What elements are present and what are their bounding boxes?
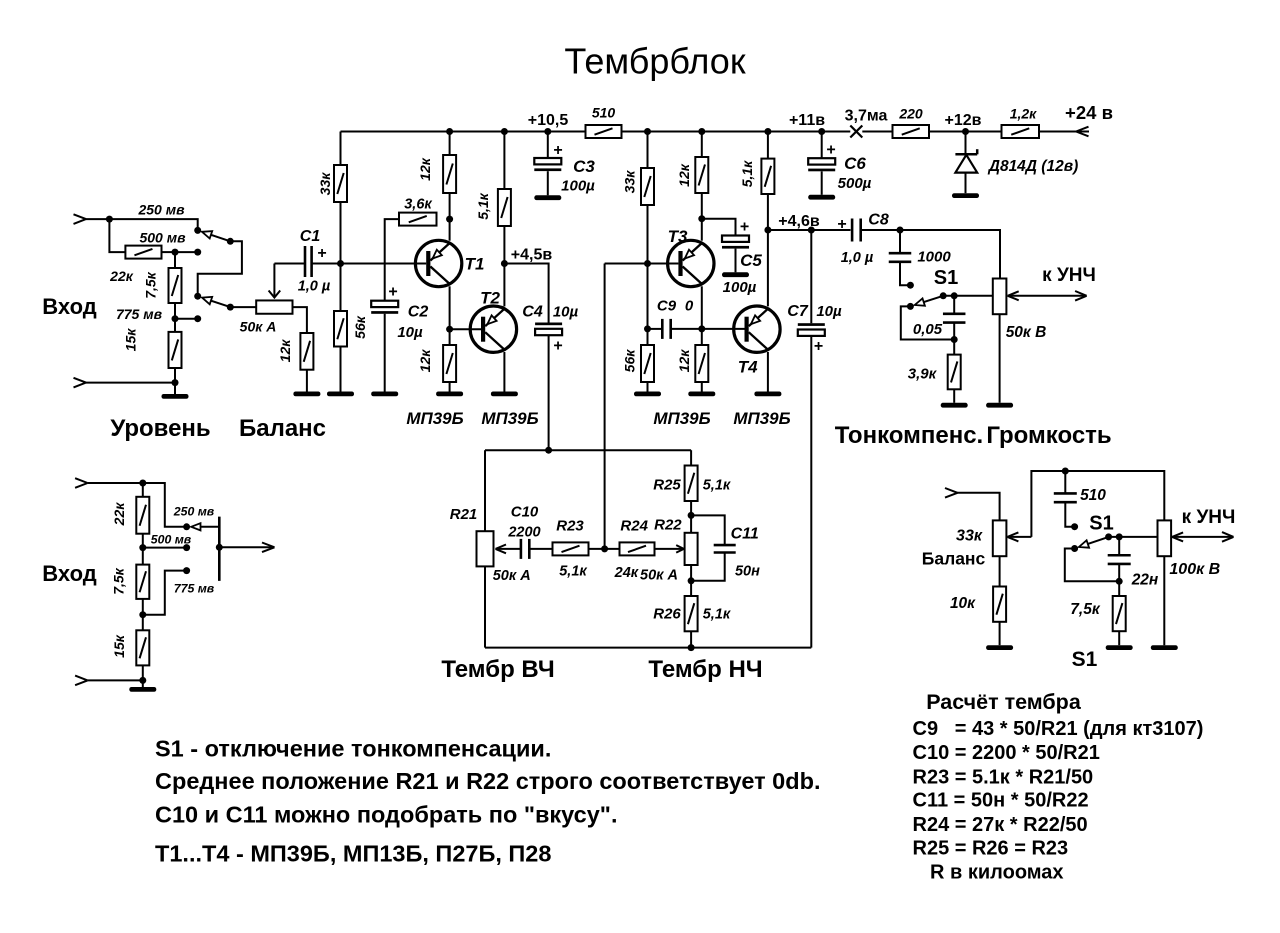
svg-text:+: + bbox=[837, 216, 846, 233]
svg-text:Вход: Вход bbox=[42, 294, 96, 319]
svg-text:R26: R26 bbox=[653, 606, 681, 623]
svg-text:Баланс: Баланс bbox=[922, 549, 986, 569]
svg-text:C5: C5 bbox=[740, 251, 762, 270]
svg-text:+24 в: +24 в bbox=[1065, 102, 1113, 123]
svg-text:2200: 2200 bbox=[507, 525, 540, 541]
ground 100к pot bbox=[1151, 645, 1178, 650]
label + C2 bbox=[388, 284, 397, 301]
svg-text:R в килоомах: R в килоомах bbox=[930, 862, 1064, 884]
label R26 bbox=[653, 606, 681, 623]
resistor 33к right bbox=[622, 168, 655, 205]
svg-text:T2: T2 bbox=[480, 289, 500, 308]
svg-text:+11в: +11в bbox=[789, 112, 825, 129]
svg-text:50н: 50н bbox=[735, 564, 760, 580]
svg-text:1,0 µ: 1,0 µ bbox=[841, 250, 874, 266]
resistor 220 bbox=[893, 125, 930, 138]
junction rail/C6 bbox=[818, 128, 825, 135]
label 7,5к bottom bbox=[1070, 601, 1101, 618]
wire node to 7,5к bbox=[1118, 581, 1120, 596]
contact 775мв lower bbox=[183, 567, 190, 574]
wire selector link bbox=[198, 241, 242, 296]
label 50к A balance bbox=[240, 319, 277, 335]
svg-text:T3: T3 bbox=[668, 227, 688, 246]
svg-text:1000: 1000 bbox=[917, 249, 951, 266]
wire rail to 33k left bbox=[340, 132, 342, 166]
resistor 22к lower bbox=[111, 497, 149, 534]
junction input/22k bbox=[106, 216, 113, 223]
note line 4 bbox=[155, 841, 551, 867]
label + C3 bbox=[553, 142, 562, 159]
svg-text:+: + bbox=[317, 245, 326, 262]
wire T4 collector up bbox=[767, 230, 769, 306]
label R25 bbox=[653, 477, 681, 494]
resistor 12к T1 lower bbox=[417, 345, 456, 382]
capacitor C1 1,0µ bbox=[305, 246, 312, 277]
junction rail/33k right bbox=[644, 128, 651, 135]
label C7 bbox=[787, 303, 809, 320]
resistor 12к balance bbox=[277, 333, 313, 370]
svg-text:33к: 33к bbox=[317, 172, 333, 196]
label C4 bbox=[522, 304, 543, 321]
svg-text:R25 = R26 = R23: R25 = R26 = R23 bbox=[913, 838, 1069, 860]
label 24к R24 bbox=[614, 565, 639, 581]
label + C7 bbox=[814, 338, 823, 355]
wire C3 to ground bbox=[547, 171, 549, 195]
svg-text:50к B: 50к B bbox=[1006, 324, 1047, 341]
wire 3,6к to C2 bbox=[385, 219, 399, 301]
label 500µ bbox=[838, 175, 872, 192]
junction C4 line/tone top bbox=[545, 447, 552, 454]
label +24 в bbox=[1065, 102, 1113, 123]
svg-text:R23: R23 bbox=[556, 518, 584, 535]
svg-text:Баланс: Баланс bbox=[239, 415, 326, 442]
ground volume pot bbox=[986, 403, 1013, 408]
svg-text:15к: 15к bbox=[111, 634, 127, 658]
label R23 bbox=[556, 518, 584, 535]
ground balance 12k bbox=[293, 392, 320, 397]
ground C3 bbox=[534, 195, 561, 200]
potentiometer R22 50к A bbox=[685, 533, 698, 565]
svg-text:10µ: 10µ bbox=[397, 324, 423, 341]
wire C10 to R23 bbox=[529, 548, 552, 550]
ground T2 bbox=[491, 392, 518, 397]
svg-text:+10,5: +10,5 bbox=[528, 112, 569, 129]
label + C1 bbox=[317, 245, 326, 262]
label 50к A R21 bbox=[493, 568, 531, 584]
svg-text:510: 510 bbox=[592, 105, 616, 121]
wire 56k right to ground bbox=[647, 382, 649, 392]
wire C7 tap down bbox=[810, 230, 812, 323]
wire zener to ground bbox=[965, 173, 967, 194]
svg-text:500 мв: 500 мв bbox=[151, 533, 192, 547]
wire balance2 pot to 10к bbox=[999, 556, 1001, 586]
capacitor C3 100µ bbox=[534, 158, 561, 171]
arrow к УНЧ bottom bbox=[1222, 532, 1234, 542]
label C3 bbox=[573, 157, 595, 176]
label R24 bbox=[620, 518, 648, 535]
junction R26/C11 bbox=[688, 577, 695, 584]
junction C9 left bbox=[644, 325, 651, 332]
svg-text:22н: 22н bbox=[1131, 572, 1159, 589]
svg-text:7,5к: 7,5к bbox=[1070, 601, 1101, 618]
junction R25/C11 bbox=[688, 512, 695, 519]
resistor 7,5к upper bbox=[143, 268, 182, 303]
label к УНЧ toncomp bbox=[1042, 265, 1096, 286]
svg-text:12к: 12к bbox=[277, 339, 293, 363]
junction lower input/22k bbox=[139, 480, 146, 487]
svg-text:+: + bbox=[740, 219, 749, 236]
capacitor C6 500µ bbox=[808, 158, 835, 171]
svg-text:50к A: 50к A bbox=[240, 319, 277, 335]
label Баланс bottom bbox=[922, 549, 986, 569]
junction selector bar out bbox=[216, 544, 223, 551]
wire 10к to ground bbox=[999, 622, 1001, 645]
label 1,0µ C1 bbox=[298, 279, 331, 295]
ground 7,5к bottom bbox=[1106, 645, 1133, 650]
label 33к balance2 bbox=[956, 528, 983, 545]
junction C7 tap bbox=[808, 227, 815, 234]
junction 510 cap tap bbox=[1062, 468, 1069, 475]
svg-text:50к A: 50к A bbox=[640, 568, 678, 584]
svg-text:R25: R25 bbox=[653, 477, 681, 494]
label C5 bbox=[740, 251, 762, 270]
wire 775мв tap stub bbox=[175, 318, 198, 320]
wire 775мв lower link bbox=[143, 571, 187, 615]
label +12в bbox=[945, 112, 982, 129]
label 10µ C4 bbox=[553, 304, 579, 321]
wire 5,1k T4 to +4,6в node bbox=[767, 194, 769, 230]
label + C4 bbox=[553, 338, 562, 355]
svg-text:C2: C2 bbox=[408, 304, 429, 321]
junction T3 collector/C5 bbox=[698, 215, 705, 222]
svg-text:56к: 56к bbox=[352, 315, 368, 339]
wire C9node to 56k bbox=[647, 329, 649, 345]
resistor R25 bbox=[685, 466, 698, 502]
label 22к upper bbox=[109, 268, 134, 284]
label 1000 bbox=[917, 249, 951, 266]
potentiometer 100к В bbox=[1158, 520, 1172, 556]
resistor 15к upper bbox=[123, 328, 182, 368]
potentiometer 50к B (Громкость) bbox=[993, 279, 1007, 315]
label C11 bbox=[731, 526, 759, 543]
wire lower divider to ground bbox=[142, 680, 144, 687]
svg-text:0: 0 bbox=[685, 298, 694, 315]
capacitor 22н bbox=[1108, 555, 1131, 564]
label R21 bbox=[450, 506, 478, 523]
ground 56k right bbox=[634, 392, 661, 397]
wire T1 node to T2 base bbox=[450, 328, 481, 330]
ground C6 bbox=[808, 195, 835, 200]
wire 12k lower to ground bbox=[449, 382, 451, 392]
wire tone top bbox=[485, 449, 691, 451]
resistor 7,5к bottom bbox=[1113, 596, 1126, 631]
switch arm S upper 2 bbox=[202, 297, 230, 307]
junction rail/5,1k T2 bbox=[501, 128, 508, 135]
svg-text:R23 = 5.1к * R21/50: R23 = 5.1к * R21/50 bbox=[913, 767, 1094, 789]
wire 3,9к to ground bbox=[953, 389, 955, 403]
label 3,6к bbox=[404, 197, 432, 213]
label Вход upper bbox=[42, 294, 96, 319]
svg-text:МП39Б: МП39Б bbox=[481, 409, 538, 428]
pole switch upper 1 bbox=[227, 238, 234, 245]
svg-text:Д814Д (12в): Д814Д (12в) bbox=[987, 158, 1078, 175]
ground 12k T1 lower bbox=[436, 392, 463, 397]
svg-text:+4,5в: +4,5в bbox=[511, 247, 553, 264]
wire tone bottom bbox=[485, 647, 811, 649]
svg-text:5,1к: 5,1к bbox=[739, 160, 755, 187]
svg-text:S1 - отключение тонкомпенсации: S1 - отключение тонкомпенсации. bbox=[155, 736, 551, 762]
label 100µ C3 bbox=[561, 178, 595, 195]
svg-text:S1: S1 bbox=[934, 267, 958, 289]
contact 250мв lower bbox=[183, 523, 190, 530]
contact 250мв upper bbox=[194, 227, 201, 234]
label + C5 bbox=[740, 219, 749, 236]
wire T1 emitter down bbox=[449, 286, 451, 329]
wire C6 to ground bbox=[821, 171, 823, 194]
formula R24 bbox=[913, 814, 1088, 836]
capacitor C2 10µ bbox=[371, 301, 398, 314]
wire 12k T3 to T3 bbox=[701, 193, 703, 241]
capacitor 510 bottom bbox=[1054, 493, 1077, 502]
switch S1 arm (bottom) bbox=[1079, 537, 1109, 548]
wire S1b contact loop bbox=[1065, 549, 1119, 582]
resistor 15к lower bbox=[111, 630, 149, 665]
selector common bar lower bbox=[218, 517, 221, 581]
wire to 510 cap bbox=[1064, 471, 1066, 494]
junction 22н/7,5к bbox=[1116, 578, 1123, 585]
wiper arrow volume pot bbox=[1008, 291, 1087, 300]
svg-text:C1: C1 bbox=[300, 228, 321, 245]
contact 775мв upper bbox=[194, 315, 201, 322]
svg-text:33к: 33к bbox=[622, 170, 638, 194]
label 10µ C7 bbox=[816, 303, 842, 320]
svg-text:С10 и С11 можно подобрать по ": С10 и С11 можно подобрать по "вкусу". bbox=[155, 802, 617, 828]
svg-text:12к: 12к bbox=[676, 349, 692, 373]
resistor 1,2к bbox=[1002, 125, 1040, 138]
svg-text:10µ: 10µ bbox=[816, 303, 842, 320]
svg-text:C11 = 50н * 50/R22: C11 = 50н * 50/R22 bbox=[913, 790, 1089, 812]
wire T4 emitter to ground bbox=[767, 352, 769, 392]
wire T2 collector up bbox=[503, 264, 505, 307]
label +11в bbox=[789, 112, 825, 129]
svg-text:250 мв: 250 мв bbox=[137, 202, 185, 218]
svg-text:к УНЧ: к УНЧ bbox=[1042, 265, 1096, 286]
capacitor C5 100µ bbox=[722, 236, 749, 249]
label МП39Б T2 bbox=[481, 409, 538, 428]
capacitor C10 2200 bbox=[521, 539, 529, 559]
arrow input balance section bbox=[945, 488, 958, 498]
label 775 мв upper bbox=[116, 306, 163, 322]
svg-text:Тонкомпенс.: Тонкомпенс. bbox=[835, 422, 983, 449]
svg-text:C7: C7 bbox=[787, 303, 809, 320]
ground C5 bbox=[722, 272, 749, 277]
junction +4,6в node bbox=[764, 227, 771, 234]
arrow input upper channel (top) bbox=[74, 214, 87, 224]
wire 22k branch bbox=[109, 219, 125, 252]
label 775 мв lower bbox=[174, 582, 215, 596]
label 50н bbox=[735, 564, 760, 580]
svg-text:5,1к: 5,1к bbox=[475, 192, 491, 219]
svg-text:C9: C9 bbox=[657, 298, 677, 315]
svg-text:Тембр НЧ: Тембр НЧ bbox=[648, 656, 762, 683]
wire rail segment 220 to zener node bbox=[929, 131, 1002, 133]
svg-text:R24 = 27к * R22/50: R24 = 27к * R22/50 bbox=[913, 814, 1088, 836]
label Тембр ВЧ bbox=[441, 656, 554, 683]
svg-text:C11: C11 bbox=[731, 526, 759, 543]
label R22 bbox=[654, 517, 682, 534]
contact S1b lower bbox=[1071, 545, 1078, 552]
junction divider bottom bbox=[172, 379, 179, 386]
label 0,05 bbox=[913, 321, 943, 338]
contact selector link bbox=[194, 293, 201, 300]
transistor T3 bbox=[668, 227, 714, 287]
switch arm lower selector bbox=[191, 523, 219, 530]
wire C8 to volume pot bbox=[861, 230, 1000, 279]
svg-text:C10: C10 bbox=[511, 504, 539, 521]
label +4,5в bbox=[511, 247, 553, 264]
wire divider to ground bbox=[174, 383, 176, 394]
capacitor C8 1,0µ bbox=[852, 219, 861, 242]
wire rail to C3 bbox=[547, 132, 549, 159]
svg-text:+12в: +12в bbox=[945, 112, 982, 129]
ground lower input divider bbox=[129, 687, 156, 692]
ground zener bbox=[952, 193, 979, 198]
svg-text:+: + bbox=[826, 142, 835, 159]
wire T3 base feed bbox=[605, 263, 679, 265]
wire balance pot right to 12k bbox=[293, 307, 307, 333]
arrow +24в supply input bbox=[1076, 127, 1089, 137]
capacitor C4 10µ bbox=[535, 323, 562, 336]
resistor 12к T3 lower bbox=[676, 345, 708, 382]
label 5,1к R25 bbox=[703, 478, 731, 494]
resistor 56к left bbox=[334, 311, 368, 347]
label 5,1к R23 bbox=[559, 564, 587, 580]
svg-text:12к: 12к bbox=[417, 157, 433, 181]
svg-text:22к: 22к bbox=[111, 502, 127, 527]
svg-text:12к: 12к bbox=[676, 163, 692, 187]
wire R26 to tone bottom bbox=[690, 631, 692, 647]
junction T1 collector/3,6к bbox=[446, 216, 453, 223]
junction T1/T2 base bbox=[446, 326, 453, 333]
svg-text:S1: S1 bbox=[1089, 513, 1113, 535]
svg-text:775 мв: 775 мв bbox=[174, 582, 215, 596]
svg-text:+: + bbox=[553, 338, 562, 355]
svg-text:+: + bbox=[553, 142, 562, 159]
junction T3 base divider bbox=[644, 260, 651, 267]
wire input to balance pot bbox=[958, 493, 1000, 521]
formula R23 bbox=[913, 767, 1094, 789]
svg-text:C10 = 2200 * 50/R21: C10 = 2200 * 50/R21 bbox=[913, 742, 1100, 764]
svg-text:7,5к: 7,5к bbox=[111, 567, 127, 594]
svg-text:500µ: 500µ bbox=[838, 175, 872, 192]
switch S1 arm (toncomp) bbox=[915, 296, 944, 306]
svg-text:56к: 56к bbox=[622, 349, 638, 373]
label Д814Д (12в) bbox=[987, 158, 1078, 175]
wire S1 pole to volume wiper bbox=[943, 295, 993, 297]
label C1 bbox=[300, 228, 321, 245]
resistor 12к T3 collector bbox=[676, 157, 708, 193]
svg-text:C4: C4 bbox=[522, 304, 543, 321]
wire to 0,05 cap bbox=[953, 296, 955, 314]
wire T1 node to 12k lower bbox=[449, 329, 451, 345]
label 100к В bbox=[1169, 561, 1220, 578]
label МП39Б T4 bbox=[733, 409, 790, 428]
svg-text:220: 220 bbox=[898, 106, 923, 122]
wire rail to C6 bbox=[821, 132, 823, 159]
contact S1b upper (510) bbox=[1071, 523, 1078, 530]
svg-text:+: + bbox=[814, 338, 823, 355]
wire pole to balance pot bbox=[230, 306, 256, 308]
capacitor 0,05 bbox=[943, 314, 966, 323]
contact S1 upper (1000) bbox=[907, 282, 914, 289]
svg-text:R24: R24 bbox=[620, 518, 648, 535]
svg-text:Тембр ВЧ: Тембр ВЧ bbox=[441, 656, 554, 683]
formula C10 bbox=[913, 742, 1100, 764]
wire R23 to R24 bbox=[589, 548, 620, 550]
label 220 bbox=[898, 106, 923, 122]
wire rail to 12k T1 bbox=[449, 132, 451, 156]
wire C1 to T1 base bbox=[312, 263, 427, 265]
arrow input lower channel (top) bbox=[75, 478, 88, 488]
svg-text:к УНЧ: к УНЧ bbox=[1182, 507, 1236, 528]
wire tone top left to R21 bbox=[484, 450, 486, 531]
svg-text:C8: C8 bbox=[868, 212, 889, 229]
svg-text:50к A: 50к A bbox=[493, 568, 531, 584]
resistor 510 (rail) bbox=[586, 125, 622, 138]
switch arm S upper 1 bbox=[202, 231, 230, 241]
ground 10к bbox=[986, 645, 1013, 650]
label +10,5 bbox=[528, 112, 569, 129]
resistor R26 bbox=[685, 596, 698, 631]
arrow к УНЧ (toncomp out) bbox=[1075, 291, 1087, 301]
svg-text:250 мв: 250 мв bbox=[173, 505, 215, 519]
label 50к A R22 bbox=[640, 568, 678, 584]
wire input to 250мв contact bbox=[86, 219, 198, 230]
svg-text:МП39Б: МП39Б bbox=[733, 409, 790, 428]
wire lower selector output bbox=[219, 546, 273, 548]
ground 12k T3 lower bbox=[688, 392, 715, 397]
current break mark 3,7ма (X) bbox=[850, 126, 862, 138]
wire +4,6в to C8 bbox=[768, 229, 851, 231]
contact S1 lower bbox=[907, 303, 914, 310]
svg-text:3,6к: 3,6к bbox=[404, 197, 432, 213]
wire 22н to 7,5к node bbox=[1118, 564, 1120, 581]
svg-text:Среднее положение R21 и R22 ст: Среднее положение R21 и R22 строго соотв… bbox=[155, 768, 820, 794]
svg-text:R21: R21 bbox=[450, 506, 478, 523]
label S1 bottom switch bbox=[1089, 513, 1113, 535]
label 50к B bbox=[1006, 324, 1047, 341]
pole S1 bottom bbox=[1105, 533, 1112, 540]
junction rail/5,1k T4 bbox=[764, 128, 771, 135]
wire C7 to tone block right bbox=[810, 336, 812, 648]
wire T2 emitter to ground bbox=[503, 352, 505, 392]
wire C9 to T4 base bbox=[672, 328, 745, 330]
arrow lower selector output bbox=[262, 543, 275, 553]
wiper arrow R22 bbox=[655, 545, 684, 553]
wire 12k to T1 bbox=[449, 193, 451, 241]
wiper arrow balance pot bbox=[269, 264, 281, 298]
label 3,7ма bbox=[845, 108, 888, 125]
resistor R23 bbox=[553, 542, 589, 555]
wire T3 base node to R23/R24 junction bbox=[604, 264, 606, 549]
label 10µ C2 bbox=[397, 324, 423, 341]
wire 5,1k to +4,5в node bbox=[503, 226, 505, 264]
label C2 bbox=[408, 304, 429, 321]
capacitor C11 50н bbox=[714, 545, 736, 552]
label 2200 bbox=[507, 525, 540, 541]
label 500 мв lower bbox=[151, 533, 192, 547]
wire C2 to ground bbox=[384, 314, 386, 392]
